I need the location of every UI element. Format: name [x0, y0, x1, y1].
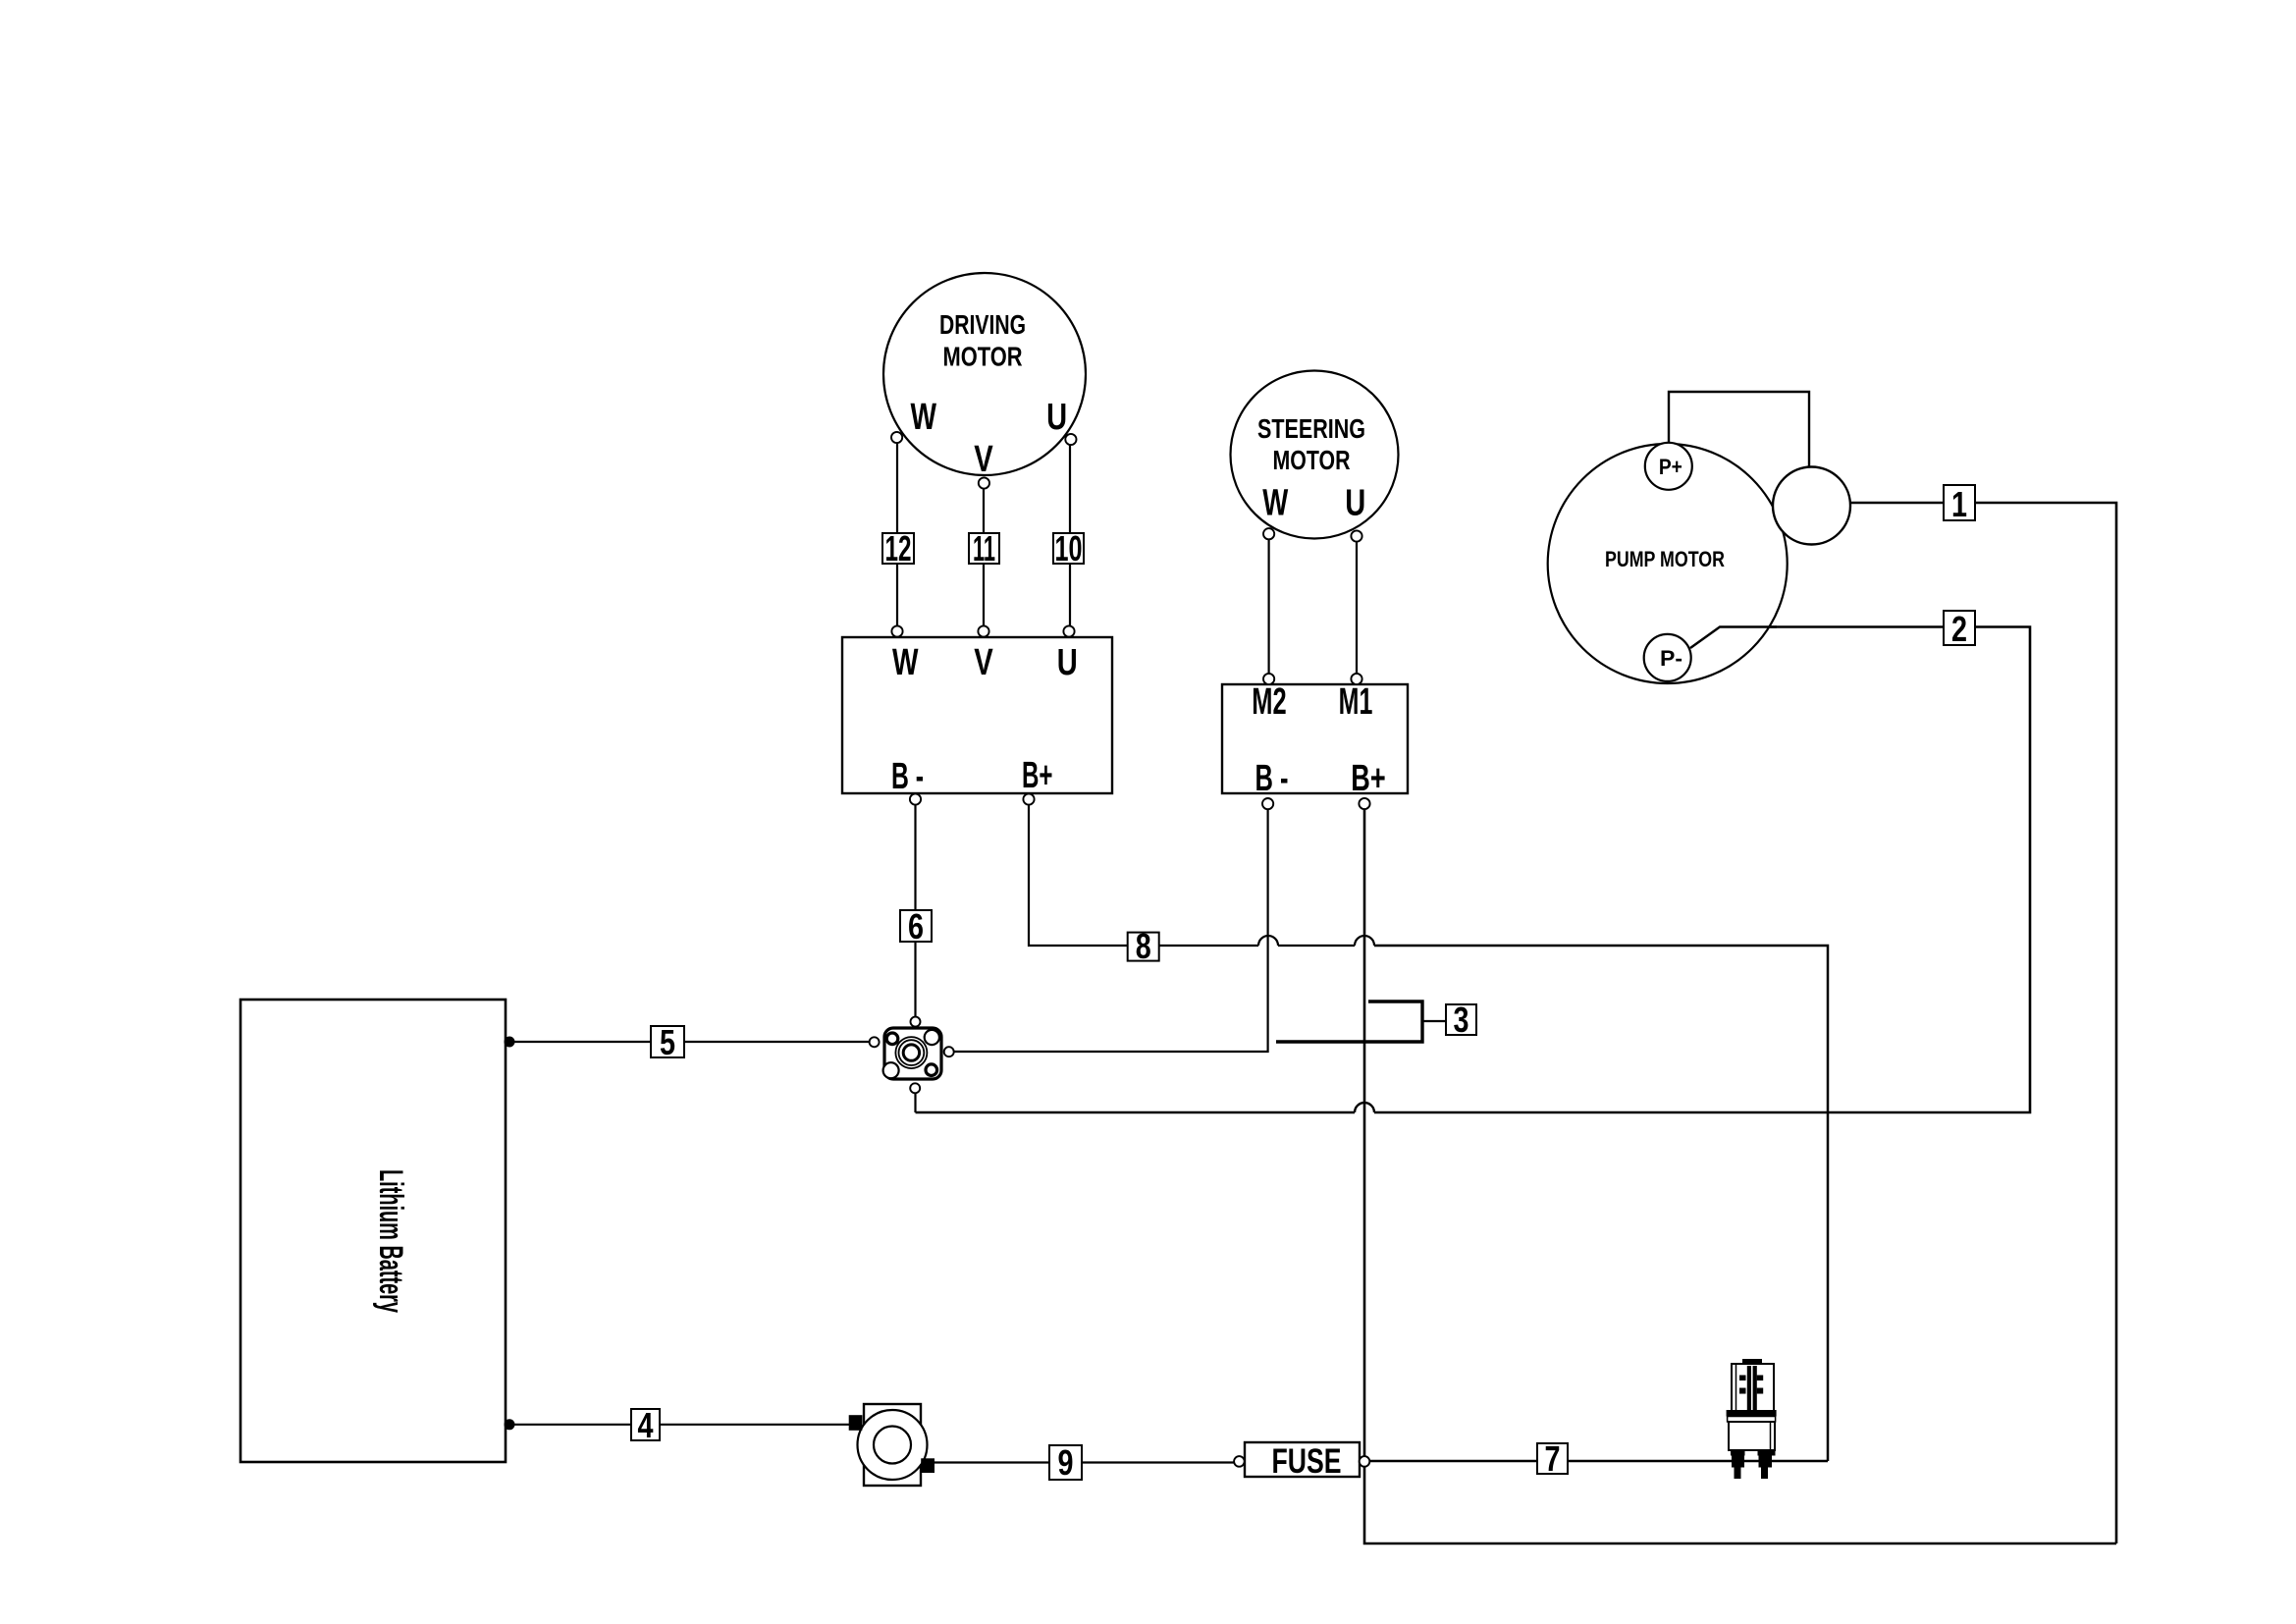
- svg-text:U: U: [1046, 397, 1067, 438]
- contactor terminal bottom: [910, 1083, 920, 1093]
- svg-text:B+: B+: [1022, 755, 1053, 796]
- svg-text:4: 4: [638, 1405, 654, 1445]
- terminal B+ controller: [1023, 793, 1034, 804]
- fuse terminal right: [1360, 1456, 1370, 1467]
- svg-text:1: 1: [1951, 484, 1967, 524]
- svg-text:7: 7: [1545, 1438, 1561, 1479]
- wire jump arc over steering B+: [1355, 936, 1374, 946]
- svg-text:B -: B -: [891, 756, 924, 797]
- relay upper body: [1732, 1364, 1774, 1411]
- bolt hole top-right: [925, 1030, 939, 1045]
- box 4: [631, 1405, 660, 1445]
- svg-text:U: U: [1345, 483, 1365, 524]
- wire steering B+ down through FUSE node to bottom rail and right to wire1: [1364, 809, 2116, 1543]
- box 7: [1537, 1438, 1568, 1479]
- svg-text:V: V: [974, 439, 993, 480]
- wire 6 : driving B- down to contactor: [914, 804, 916, 1016]
- battery + terminal dot: [505, 1037, 515, 1048]
- box 11: [969, 528, 999, 568]
- pump motor circle: [1548, 444, 1788, 683]
- svg-text:U: U: [1057, 642, 1078, 683]
- svg-text:V: V: [974, 642, 993, 683]
- wire 2 : pump P- diagonal out to right: [1690, 627, 1777, 649]
- contactor terminal left: [870, 1037, 880, 1047]
- box 2: [1944, 609, 1975, 649]
- svg-text:B+: B+: [1351, 758, 1385, 799]
- battery - terminal dot: [505, 1419, 515, 1430]
- wire 1 : solenoid to right rail down to bottom rail: [1850, 503, 2116, 1543]
- box 5: [651, 1022, 684, 1062]
- main relay: [1727, 1359, 1777, 1479]
- relay collar white band: [1728, 1417, 1776, 1423]
- key switch inner circle: [874, 1427, 911, 1464]
- FUSE: [1234, 1442, 1369, 1481]
- wire 5 : battery to contactor: [509, 1041, 870, 1043]
- wire W driving motor to box12 to controller: [896, 443, 898, 626]
- terminal U controller: [1063, 625, 1074, 636]
- svg-text:PUMP MOTOR: PUMP MOTOR: [1605, 547, 1725, 571]
- Lithium Battery box: [240, 1000, 506, 1462]
- wire steering B- down and left to contactor right terminal: [953, 809, 1268, 1052]
- wire M1 steering motor to controller: [1356, 541, 1358, 674]
- wire to box 3: [1422, 1020, 1446, 1022]
- wire 7 : fuse to relay junction: [1364, 1460, 1828, 1463]
- svg-text:P+: P+: [1659, 455, 1682, 479]
- svg-text:9: 9: [1058, 1442, 1074, 1483]
- key switch outer circle: [858, 1410, 928, 1480]
- wire 9 : key switch to fuse: [934, 1461, 1234, 1463]
- relay pins: [1739, 1376, 1746, 1381]
- svg-text:Lithium Battery: Lithium Battery: [372, 1169, 409, 1313]
- box 12: [882, 528, 914, 568]
- terminal V driving motor: [979, 477, 989, 488]
- svg-text:MOTOR: MOTOR: [943, 341, 1023, 371]
- svg-text:8: 8: [1136, 926, 1151, 966]
- wire U driving motor to box10 to controller: [1069, 445, 1071, 626]
- driving motor controller box: [842, 637, 1112, 793]
- terminal P- pump motor: [1644, 634, 1691, 681]
- svg-text:W: W: [892, 642, 919, 683]
- contactor barrel outer: [895, 1037, 927, 1068]
- pump solenoid circle: [1773, 467, 1850, 545]
- svg-text:3: 3: [1454, 1000, 1469, 1040]
- svg-text:5: 5: [660, 1022, 675, 1062]
- contactor barrel middle: [899, 1040, 925, 1065]
- terminal B- steering: [1262, 798, 1273, 809]
- svg-text:STEERING: STEERING: [1257, 413, 1365, 444]
- wire 4 : battery to key switch: [509, 1424, 849, 1426]
- svg-text:10: 10: [1055, 528, 1083, 568]
- bolt hole bottom-right: [926, 1064, 937, 1076]
- terminal B- controller: [910, 793, 921, 804]
- svg-text:P-: P-: [1660, 646, 1682, 671]
- steering controller box: [1222, 684, 1408, 793]
- svg-text:M2: M2: [1252, 681, 1286, 723]
- key switch right terminal: [921, 1458, 934, 1473]
- terminal W driving motor: [891, 432, 902, 443]
- bolt hole bottom-left: [883, 1062, 899, 1078]
- box 8: [1128, 926, 1159, 966]
- wire V driving motor to box11 to controller: [983, 489, 985, 626]
- fuse terminal left: [1234, 1456, 1245, 1467]
- relay lower body: [1729, 1422, 1775, 1450]
- terminal U steering motor: [1351, 530, 1362, 541]
- relay top tab: [1742, 1359, 1762, 1366]
- box 9: [1049, 1442, 1082, 1483]
- svg-text:DRIVING: DRIVING: [939, 309, 1026, 340]
- box 1: [1944, 484, 1975, 524]
- main contactor flange: [870, 1017, 954, 1094]
- svg-text:M1: M1: [1339, 681, 1373, 723]
- wire jump arc over steering B-: [1258, 936, 1278, 946]
- terminal W controller: [891, 625, 902, 636]
- terminal V controller: [978, 625, 988, 636]
- svg-text:FUSE: FUSE: [1272, 1442, 1342, 1481]
- wire M2 steering motor to controller: [1267, 539, 1269, 674]
- svg-text:11: 11: [973, 528, 995, 568]
- relay stud right: [1759, 1456, 1773, 1468]
- svg-text:MOTOR: MOTOR: [1273, 445, 1351, 475]
- driving motor circle: [883, 273, 1086, 475]
- relay foot left: [1731, 1450, 1745, 1456]
- key switch: [849, 1404, 934, 1486]
- terminal U driving motor: [1065, 434, 1076, 445]
- bolt hole top-left: [886, 1033, 898, 1045]
- wire 8 : driving B+ down, right, down to fuse line (jump arcs at 1292 and 1390): [1029, 804, 1258, 946]
- relay center bars: [1747, 1366, 1751, 1410]
- terminal B+ steering: [1359, 798, 1369, 809]
- svg-text:W: W: [911, 397, 937, 438]
- contactor terminal top: [911, 1017, 921, 1027]
- relay collar black band: [1727, 1410, 1777, 1417]
- box 6: [900, 906, 932, 947]
- svg-text:W: W: [1262, 483, 1288, 524]
- wire jump arc over steering B+ vertical: [1355, 1103, 1374, 1112]
- contactor terminal right: [944, 1047, 954, 1056]
- svg-text:B -: B -: [1255, 758, 1289, 799]
- relay stud left: [1732, 1456, 1744, 1468]
- key switch left terminal: [849, 1415, 863, 1431]
- wire contactor bottom terminal down to wire2 rail: [914, 1093, 916, 1112]
- wire pump P+ up and over to solenoid: [1669, 392, 1809, 468]
- steering motor circle: [1231, 371, 1399, 539]
- terminal M1: [1351, 674, 1362, 684]
- svg-text:2: 2: [1951, 609, 1967, 649]
- connector 3 bracket: [1276, 1001, 1422, 1042]
- terminal M2: [1263, 674, 1274, 684]
- wire 2 : right segment, down, left to contactor bottom (jump arc at 1390): [1374, 627, 2030, 1113]
- relay foot right: [1758, 1450, 1776, 1456]
- terminal W steering motor: [1263, 528, 1274, 539]
- contactor barrel inner: [903, 1045, 919, 1060]
- box 10: [1053, 528, 1084, 568]
- box 3: [1446, 1000, 1476, 1040]
- terminal P+ pump motor: [1645, 443, 1692, 490]
- svg-text:12: 12: [885, 528, 912, 568]
- svg-text:6: 6: [908, 906, 924, 947]
